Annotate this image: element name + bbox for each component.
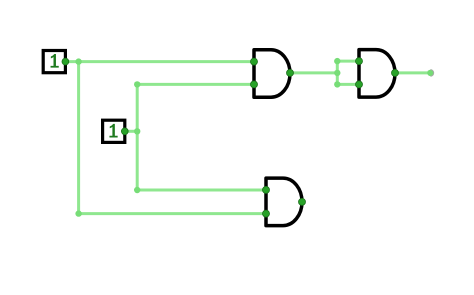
input pin I1 value label 1 (51, 54, 59, 68)
wire net B: vertical segment (136, 84, 139, 190)
AND U1 output node (287, 69, 294, 76)
wire net C: stub to AND U2 bottom input (337, 83, 359, 86)
AND gate U2 body (359, 50, 395, 98)
AND gate U3 body (266, 178, 302, 226)
wire net A: bottom horizontal to AND U3 lower input (79, 212, 266, 215)
junction node split bottom corner (334, 81, 340, 87)
wire net B: horizontal to AND U3 upper input (137, 189, 266, 192)
junction node corner bottom-left (75, 210, 81, 216)
AND U3 input node A (263, 186, 270, 193)
junction node at input I2 (134, 128, 140, 134)
wire net C: stub to AND U2 top input (337, 60, 359, 63)
input pin I2 output node (121, 128, 128, 135)
wire net C: vertical split (336, 61, 339, 84)
junction node corner upper (134, 81, 140, 87)
input pin I1 box (43, 51, 65, 73)
AND U2 input node B (356, 81, 363, 88)
AND gate U1 body (254, 50, 290, 97)
AND U2 output node (392, 69, 399, 76)
wire net B: input I2 stub to vertical (125, 130, 137, 133)
wire net D: AND U2 output wire (395, 71, 431, 74)
wire net A: vertical branch down-left (77, 62, 80, 214)
input pin I2 value label 1 (109, 124, 117, 138)
junction node at input I1 branch (75, 58, 81, 64)
junction node corner lower (134, 187, 140, 193)
AND U2 input node A (356, 58, 363, 65)
AND U1 input node A (251, 58, 258, 65)
junction node split top corner (334, 58, 340, 64)
input pin I2 box (103, 120, 125, 142)
open endpoint node of output wire (427, 70, 433, 76)
wire net B: horizontal to AND U1 lower input (137, 83, 254, 86)
wire net A: input I1 to AND U1 top input (65, 60, 254, 63)
input pin I1 output node (62, 58, 69, 65)
wire net C: AND U1 output to split (290, 71, 337, 74)
AND U1 input node B (251, 81, 258, 88)
AND U3 output node (299, 198, 306, 205)
junction node at U1 output split (334, 70, 340, 76)
AND U3 input node B (263, 210, 270, 217)
